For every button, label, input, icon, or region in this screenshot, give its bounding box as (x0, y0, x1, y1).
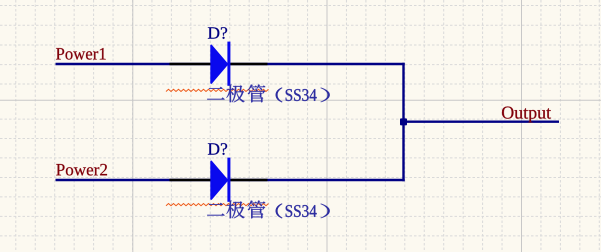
wire vertical bus segment joining both diode cathodes (402, 63, 404, 181)
wire Power1 net (horizontal segment) (56, 63, 405, 65)
wire Power2 net (horizontal segment) (56, 179, 405, 181)
diode D1 cathode bar (227, 42, 230, 86)
diode D2 designator "D?" (208, 143, 227, 155)
diode D2 pin 2 (cathode pin) (231, 179, 268, 181)
net label Power2 (56, 164, 107, 176)
diode D2 error squiggle underline (166, 204, 269, 206)
net label Power1 (56, 48, 106, 60)
diode D2 comment label "二极管（SS34）" (207, 201, 330, 219)
diode D1 error squiggle underline (166, 89, 269, 91)
diode D1 pin 1 (anode pin) (170, 63, 212, 65)
wire Output net (horizontal segment) (404, 120, 560, 122)
diode D1 comment label "二极管（SS34）" (207, 85, 330, 103)
diode D2 anode triangle (211, 161, 227, 199)
net label Output (502, 106, 551, 122)
diode D2 pin 1 (anode pin) (170, 179, 212, 181)
diode D2 cathode bar (227, 158, 230, 202)
junction node joining diode cathodes to Output (400, 118, 407, 125)
diode D1 anode triangle (211, 45, 227, 83)
diode D1 designator "D?" (208, 27, 227, 39)
diode D1 pin 2 (cathode pin) (231, 63, 268, 65)
